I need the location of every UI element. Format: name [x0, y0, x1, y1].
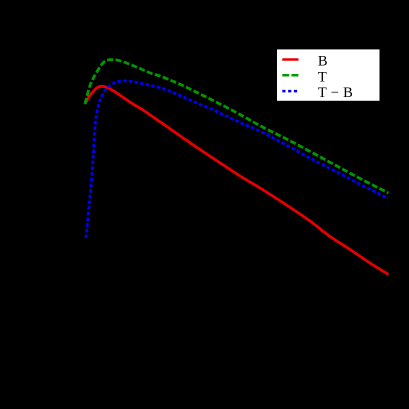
- svg-text:T − B: T − B: [318, 85, 353, 101]
- svg-text:T: T: [318, 70, 327, 86]
- svg-text:B: B: [318, 53, 328, 69]
